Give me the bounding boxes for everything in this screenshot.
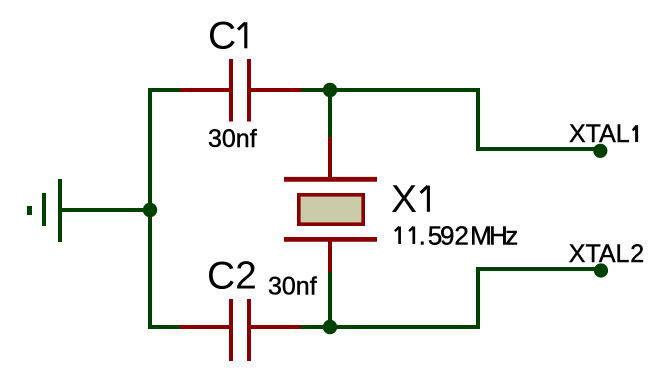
wire: node A down to crystal <box>328 90 332 138</box>
svg-text:2: 2 <box>630 240 644 268</box>
wire: rail to C1 left lead <box>150 88 180 92</box>
svg-text:30nf: 30nf <box>268 273 317 301</box>
label XTAL1 <box>569 120 637 148</box>
pin XTAL1 <box>593 144 607 158</box>
svg-text:XTAL: XTAL <box>569 240 630 268</box>
crystal X1 <box>284 137 377 272</box>
svg-text:.592MHz: .592MHz <box>419 220 519 250</box>
wire: C1 right lead to node A <box>301 88 330 92</box>
wire: left vertical rail <box>148 88 152 329</box>
svg-text:C2: C2 <box>207 255 257 298</box>
svg-text:C: C <box>208 15 236 58</box>
node: ground junction <box>143 203 157 217</box>
wire: node A to top-right corner and XTAL1 pin <box>330 90 600 149</box>
node B (bottom junction) <box>323 320 337 334</box>
wire: ground to rail <box>62 208 150 212</box>
capacitor C1 <box>180 59 301 122</box>
wire: crystal to node B <box>328 272 332 327</box>
capacitor C2 <box>180 299 301 361</box>
label X1 <box>391 178 428 221</box>
pin XTAL2 <box>594 263 608 277</box>
svg-text:XTAL: XTAL <box>569 120 630 148</box>
wire: C2 right lead to node B <box>301 325 330 329</box>
label XTAL2 <box>569 240 644 268</box>
wire: rail to C2 left lead <box>150 325 180 329</box>
value 11.592MHz <box>395 220 518 250</box>
svg-text:30nf: 30nf <box>208 125 257 153</box>
ground <box>30 179 61 242</box>
wire: node B to bottom-right corner and XTAL2 pin <box>330 269 600 327</box>
label C1 <box>208 15 246 58</box>
svg-text:X: X <box>391 178 417 221</box>
node A (top junction) <box>323 83 337 97</box>
